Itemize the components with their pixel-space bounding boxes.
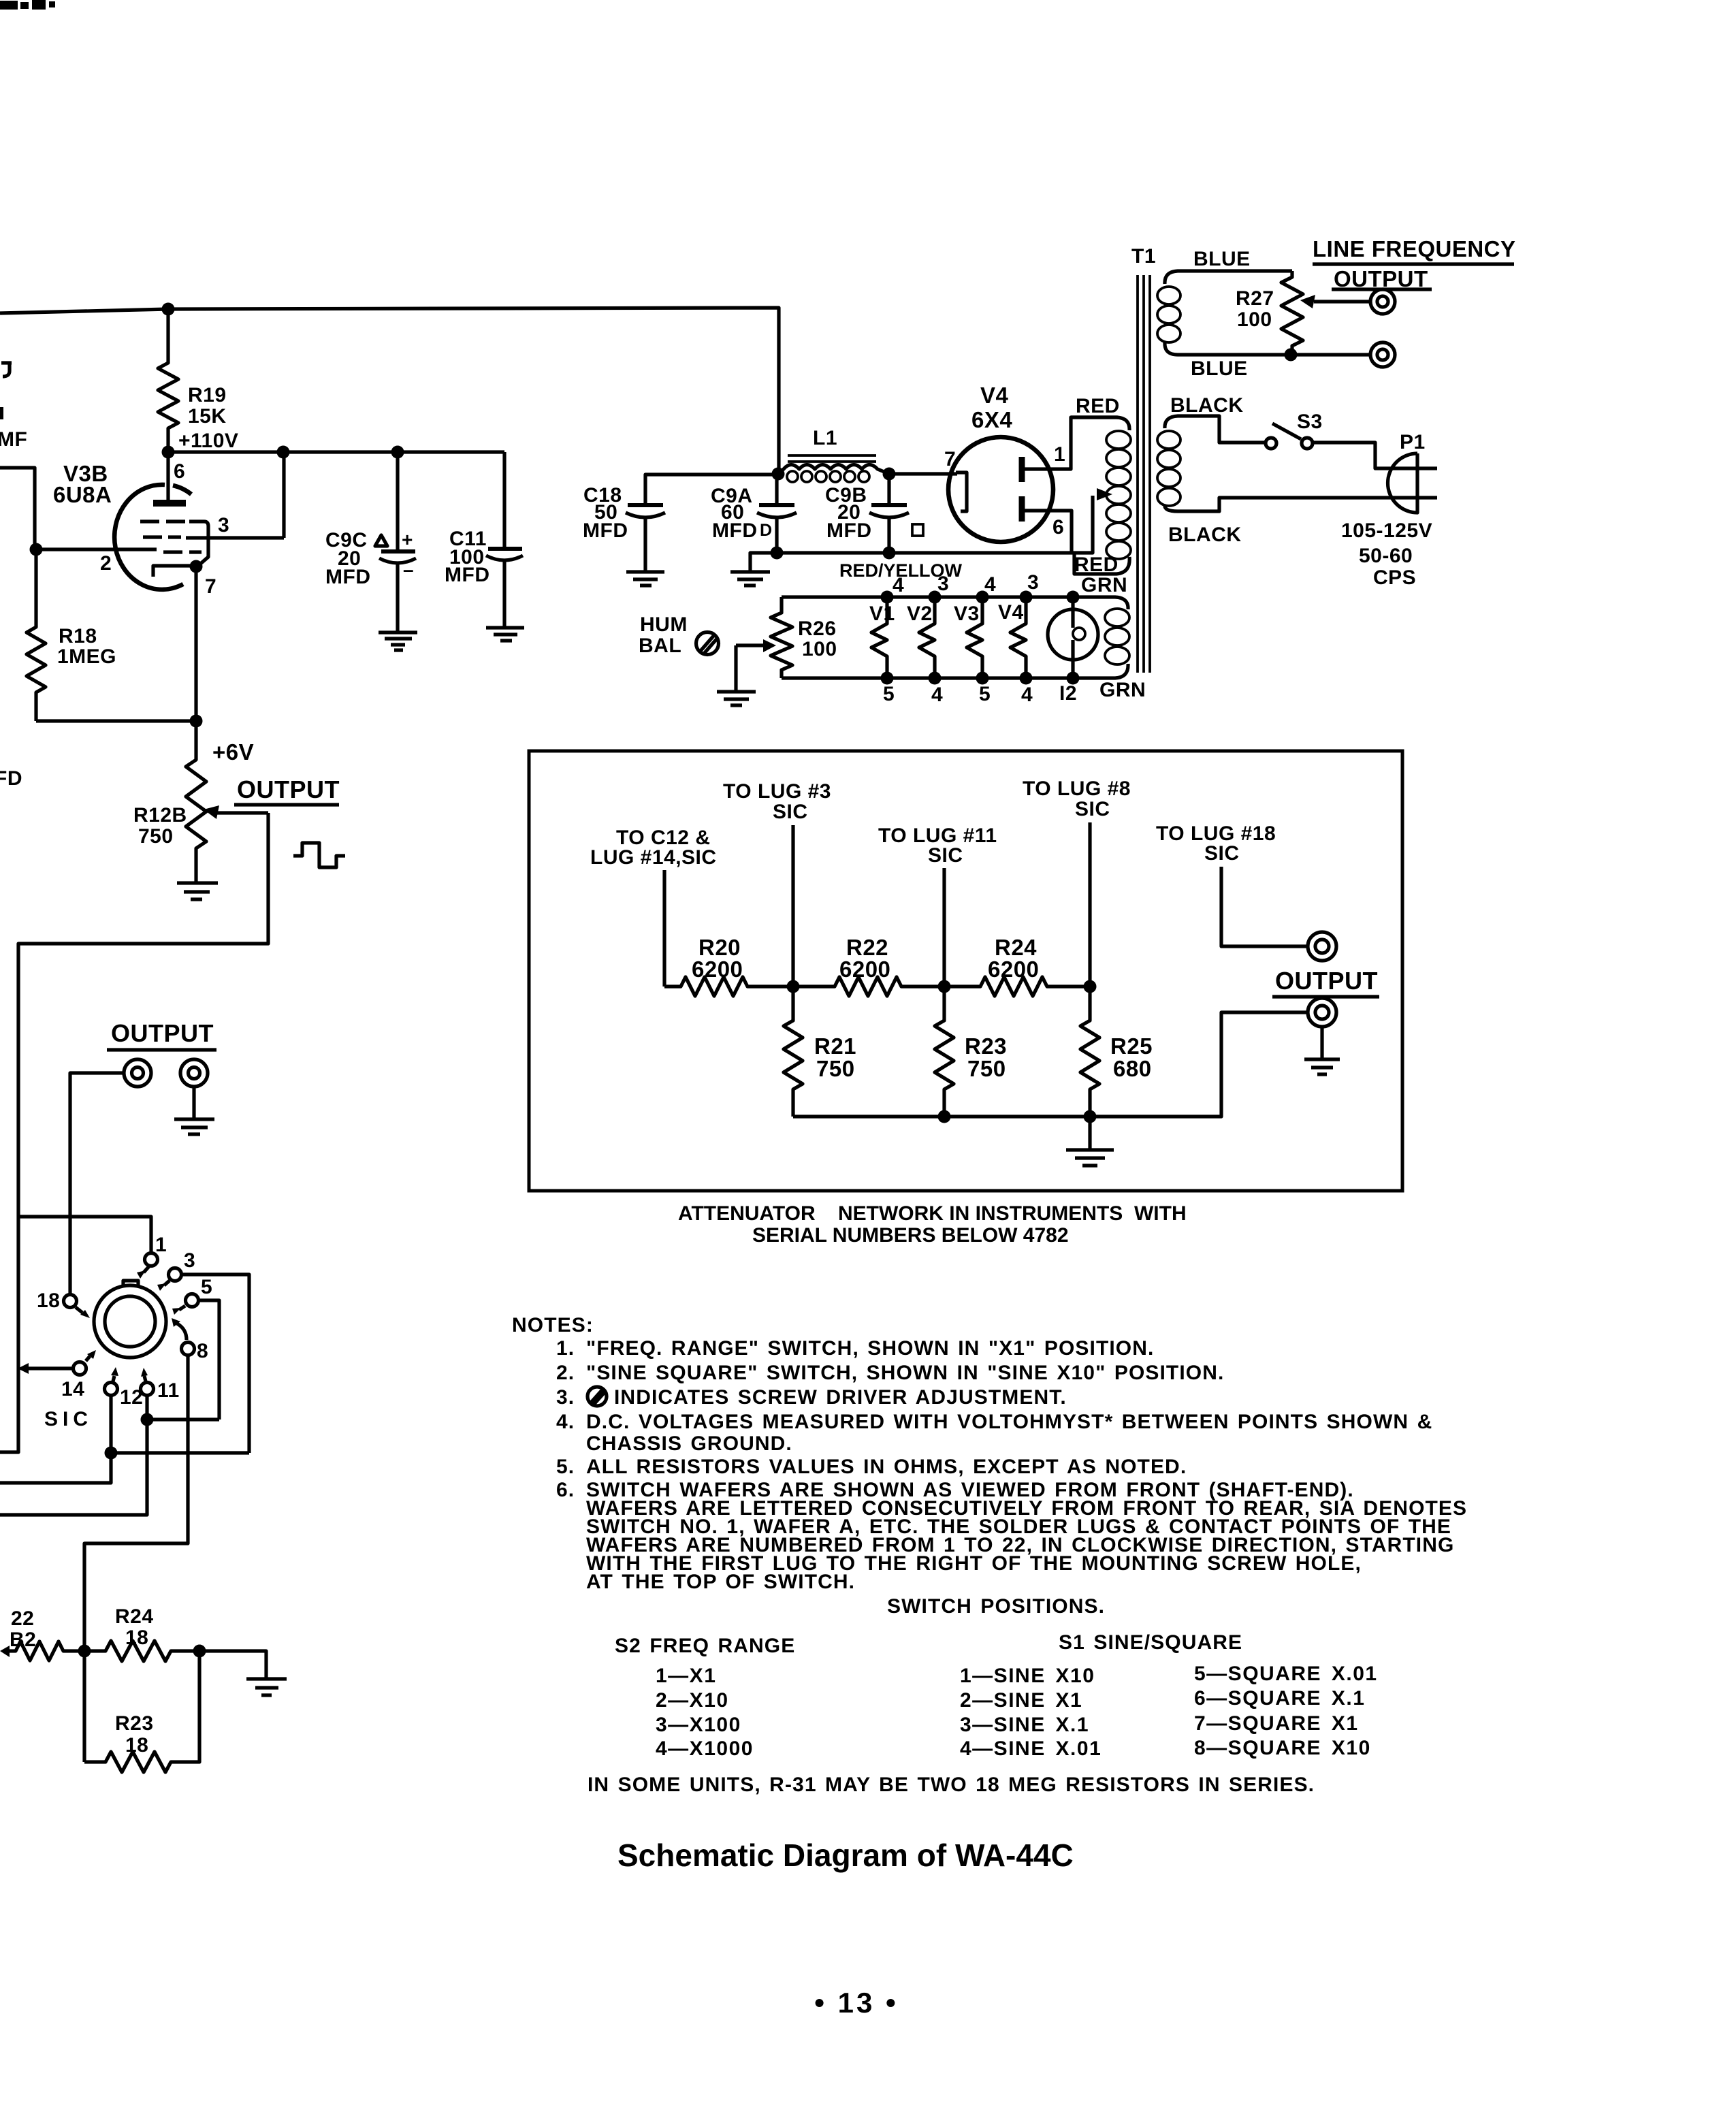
R27 wiper arrow to jack bbox=[1314, 300, 1370, 303]
svg-text:1—SINE X10: 1—SINE X10 bbox=[960, 1665, 1095, 1687]
note 3 screwdriver symbol bbox=[588, 1387, 607, 1406]
svg-text:750: 750 bbox=[967, 1056, 1006, 1081]
svg-text:R19: R19 bbox=[188, 384, 227, 406]
svg-text:6X4: 6X4 bbox=[971, 407, 1012, 432]
V3B cathode bbox=[153, 566, 195, 577]
heater resistor V1 bbox=[871, 597, 887, 678]
switch S3 bbox=[1266, 423, 1313, 449]
svg-text:MFD: MFD bbox=[583, 519, 628, 542]
capacitor C18 bbox=[626, 505, 665, 517]
lug 14 bbox=[74, 1362, 86, 1375]
node: lamp bottom bbox=[1067, 672, 1080, 685]
svg-text:5: 5 bbox=[201, 1276, 212, 1298]
svg-text:R23: R23 bbox=[965, 1033, 1007, 1059]
wire: pin 3 riser bbox=[282, 452, 285, 538]
svg-text:HUM: HUM bbox=[640, 613, 688, 636]
svg-text:OUTPUT: OUTPUT bbox=[237, 775, 340, 803]
svg-text:6200: 6200 bbox=[839, 957, 890, 982]
wire: wafer box to lug 1 bbox=[18, 1217, 151, 1253]
lug 12 bbox=[105, 1383, 118, 1396]
svg-text:NOTES:: NOTES: bbox=[512, 1314, 594, 1336]
svg-text:7—SQUARE X1: 7—SQUARE X1 bbox=[1194, 1712, 1359, 1735]
ground at RED/YELLOW rail left end bbox=[730, 572, 770, 586]
svg-text:MFD: MFD bbox=[826, 519, 871, 542]
svg-text:BLUE: BLUE bbox=[1191, 357, 1248, 380]
svg-text:TO LUG #8: TO LUG #8 bbox=[1023, 778, 1131, 800]
svg-text:R26: R26 bbox=[798, 618, 837, 640]
R12B wiper arrow bbox=[217, 811, 268, 814]
svg-text:11: 11 bbox=[157, 1379, 180, 1402]
svg-text:680: 680 bbox=[1113, 1056, 1152, 1081]
wire: RED/YELLOW center-tap rail bbox=[750, 496, 1093, 571]
svg-text:18: 18 bbox=[125, 1626, 148, 1649]
node: R25 bottom junction bbox=[1084, 1110, 1097, 1123]
lug 11 pointer bbox=[144, 1376, 146, 1381]
wire: R12B wiper to lower-left network bbox=[0, 813, 268, 1452]
wire: lug 8 down to R23/R24 bbox=[84, 1355, 188, 1762]
svg-text:SIC: SIC bbox=[44, 1408, 93, 1430]
resistor R23 lower bbox=[84, 1651, 199, 1772]
resistor R22 lower bbox=[10, 1641, 84, 1661]
jack: lower output hot bbox=[124, 1059, 151, 1087]
wire: lug 3 lead bbox=[791, 825, 794, 987]
svg-text:R18: R18 bbox=[59, 625, 97, 647]
wire: lug 14 to left bus bbox=[29, 1366, 74, 1370]
node: +110V junction bbox=[162, 446, 175, 459]
lug 1 bbox=[145, 1253, 158, 1266]
svg-text:12: 12 bbox=[120, 1386, 143, 1409]
wire: hot jack to lug 18 bbox=[70, 1073, 124, 1295]
wire: C18 top to L1 node bbox=[645, 475, 778, 505]
svg-text:SIC: SIC bbox=[1075, 798, 1110, 820]
svg-text:100: 100 bbox=[1237, 308, 1272, 331]
V4 plate bar pin 6 bbox=[1019, 496, 1025, 522]
wire: junction to ground bbox=[199, 1651, 266, 1678]
svg-text:4: 4 bbox=[1021, 684, 1033, 706]
node: C9B bottom junction bbox=[883, 547, 896, 560]
partial glyph bar at left edge bbox=[0, 407, 3, 419]
svg-text:I2: I2 bbox=[1059, 682, 1077, 705]
plug P1 bbox=[1388, 453, 1418, 513]
svg-text:D: D bbox=[760, 521, 773, 540]
svg-text:OUTPUT: OUTPUT bbox=[1275, 967, 1378, 995]
lug 12 pointer bbox=[113, 1376, 114, 1381]
capacitor C9B bbox=[869, 505, 909, 517]
svg-text:+6V: +6V bbox=[212, 739, 254, 765]
wire: C11 to ground bbox=[502, 561, 506, 626]
svg-text:2.: 2. bbox=[556, 1362, 575, 1384]
attenuator network box bbox=[529, 751, 1402, 1191]
svg-text:1—X1: 1—X1 bbox=[656, 1665, 716, 1687]
underline OUTPUT bbox=[1332, 287, 1432, 291]
svg-text:CHASSIS GROUND.: CHASSIS GROUND. bbox=[586, 1432, 792, 1455]
capacitor C9A riser bbox=[775, 474, 778, 505]
lug 18 pointer bbox=[76, 1307, 82, 1313]
jack: attenuator output hot bbox=[1308, 932, 1336, 961]
wire: C9C to ground bbox=[396, 564, 399, 631]
node: heater top 4b bbox=[976, 591, 989, 604]
rotary switch wafer S1C bbox=[94, 1281, 166, 1358]
transformer BLACK winding (primary) bbox=[1157, 416, 1437, 511]
V4 cathode bbox=[956, 472, 967, 511]
node: R24/R23 right junction bbox=[193, 1645, 206, 1658]
svg-text:LINE FREQUENCY: LINE FREQUENCY bbox=[1313, 236, 1516, 261]
wire: lug 11 lead bbox=[942, 868, 946, 987]
svg-text:4: 4 bbox=[931, 684, 943, 706]
wire: lug 12 down and left bbox=[0, 1395, 111, 1483]
svg-text:8—SQUARE X10: 8—SQUARE X10 bbox=[1194, 1737, 1371, 1759]
wire: pin 3 from grid to riser bbox=[186, 536, 284, 539]
wire: pin 1 to RED winding top bbox=[1025, 417, 1118, 469]
node: cathode pin 7 junction bbox=[190, 560, 203, 573]
wire: pin 6 to junction bbox=[1025, 511, 1072, 552]
ground under hum balance wiper bbox=[717, 692, 756, 705]
V4 plate bar pin 1 bbox=[1019, 457, 1025, 482]
svg-text:–: – bbox=[403, 559, 415, 580]
wire: junction to lug 5 branch bbox=[147, 1417, 219, 1421]
svg-text:22: 22 bbox=[11, 1607, 34, 1630]
svg-text:2: 2 bbox=[100, 552, 112, 575]
V3B plate bar bbox=[153, 500, 186, 507]
svg-text:5: 5 bbox=[979, 683, 991, 705]
tube V4 envelope bbox=[948, 437, 1053, 542]
wire: pin 2 grid wire from left bbox=[0, 468, 157, 549]
svg-text:TO LUG #3: TO LUG #3 bbox=[723, 780, 831, 803]
svg-text:Schematic Diagram of WA-44C: Schematic Diagram of WA-44C bbox=[617, 1838, 1074, 1873]
node: lamp top bbox=[1067, 591, 1080, 604]
polarity triangle for C9C bbox=[375, 535, 387, 546]
capacitor C11 bbox=[486, 549, 523, 560]
svg-text:S1 SINE/SQUARE: S1 SINE/SQUARE bbox=[1059, 1631, 1242, 1654]
ground lower output jack bbox=[174, 1119, 214, 1134]
svg-text:V1: V1 bbox=[869, 603, 895, 625]
svg-text:SIC: SIC bbox=[928, 844, 963, 867]
node: heater bottom 5b bbox=[976, 672, 989, 685]
capacitor C9B riser bbox=[887, 474, 890, 505]
V3B grid row A with hook to cathode bbox=[140, 522, 208, 566]
ground attenuator jack bbox=[1304, 1059, 1340, 1074]
svg-text:B2: B2 bbox=[10, 1629, 36, 1651]
underline OUTPUT bbox=[234, 803, 339, 806]
transformer T1 core bbox=[1138, 275, 1150, 673]
svg-text:750: 750 bbox=[138, 825, 174, 848]
svg-text:BLACK: BLACK bbox=[1170, 394, 1244, 417]
svg-text:6U8A: 6U8A bbox=[53, 482, 112, 507]
potentiometer R12B bbox=[186, 721, 206, 883]
node: R22/R23/R24 junction bbox=[938, 980, 951, 993]
svg-text:MFD: MFD bbox=[712, 519, 757, 542]
svg-text:1.: 1. bbox=[556, 1337, 575, 1360]
jack: line frequency output 2 bbox=[1370, 342, 1395, 367]
jack: attenuator output ground bbox=[1308, 998, 1336, 1027]
svg-text:SIC: SIC bbox=[1204, 842, 1240, 865]
svg-text:1: 1 bbox=[155, 1234, 167, 1256]
wire: C9B to RED/YELLOW rail bbox=[887, 517, 890, 553]
svg-text:R12B: R12B bbox=[133, 804, 187, 827]
svg-text:750: 750 bbox=[816, 1056, 855, 1081]
svg-text:BLACK: BLACK bbox=[1168, 524, 1242, 546]
transformer RED winding (HV secondary) bbox=[1071, 417, 1131, 574]
svg-text:SERIAL NUMBERS BELOW 4782: SERIAL NUMBERS BELOW 4782 bbox=[752, 1224, 1069, 1247]
node: R22/R24/R23 junction bbox=[78, 1645, 91, 1658]
L1 core lines bbox=[788, 455, 876, 462]
svg-text:1MEG: 1MEG bbox=[57, 645, 116, 668]
svg-text:100: 100 bbox=[802, 638, 837, 660]
ground lower network bbox=[246, 1679, 287, 1695]
V3B grid row C dashes bbox=[163, 550, 202, 554]
svg-text:P1: P1 bbox=[1400, 431, 1426, 453]
svg-text:"FREQ. RANGE" SWITCH, SHOWN IN: "FREQ. RANGE" SWITCH, SHOWN IN "X1" POSI… bbox=[586, 1337, 1154, 1360]
svg-text:4—SINE X.01: 4—SINE X.01 bbox=[960, 1737, 1102, 1760]
svg-text:R27: R27 bbox=[1236, 287, 1274, 310]
capacitor C11 riser bbox=[502, 452, 506, 549]
wire: +110V rail to C9C and C11 bbox=[168, 450, 504, 453]
wire: lug 8 lead bbox=[1088, 822, 1091, 987]
svg-text:V4: V4 bbox=[998, 601, 1024, 624]
capacitor C9C bbox=[379, 551, 416, 563]
node: C9C riser junction bbox=[391, 446, 404, 459]
resistor R23 bbox=[935, 987, 954, 1117]
svg-text:4—X1000: 4—X1000 bbox=[656, 1737, 754, 1760]
wire: lug 11 down and left bbox=[0, 1395, 147, 1515]
wire: R18 bottom to cathode node (+6V) bbox=[36, 719, 196, 722]
lug 5 pointer bbox=[179, 1306, 185, 1310]
lug 18 bbox=[64, 1295, 77, 1308]
svg-text:50-60: 50-60 bbox=[1359, 545, 1413, 567]
lug 5 bbox=[186, 1294, 199, 1307]
ground attenuator rail bbox=[1066, 1150, 1114, 1166]
svg-text:D.C. VOLTAGES MEASURED WITH VO: D.C. VOLTAGES MEASURED WITH VOLTOHMYST* … bbox=[586, 1411, 1432, 1433]
wire: to jack 2 bbox=[1291, 353, 1370, 356]
svg-text:OUTPUT: OUTPUT bbox=[111, 1019, 214, 1047]
svg-text:IN SOME UNITS, R-31 MAY BE TWO: IN SOME UNITS, R-31 MAY BE TWO 18 MEG RE… bbox=[588, 1774, 1315, 1796]
svg-text:R25: R25 bbox=[1110, 1033, 1153, 1059]
node: C9A bottom junction bbox=[771, 547, 784, 560]
svg-text:SWITCH POSITIONS.: SWITCH POSITIONS. bbox=[887, 1595, 1105, 1618]
svg-text:CPS: CPS bbox=[1373, 566, 1416, 589]
svg-text:15K: 15K bbox=[188, 405, 227, 428]
svg-text:18: 18 bbox=[125, 1734, 148, 1757]
square wave symbol bbox=[293, 843, 345, 867]
svg-text:BAL: BAL bbox=[639, 635, 681, 657]
svg-text:3: 3 bbox=[937, 573, 949, 595]
svg-text:• 13 •: • 13 • bbox=[814, 1987, 898, 2019]
center tap arrowhead into RED winding bbox=[1097, 488, 1112, 500]
tube V3B envelope bbox=[114, 485, 191, 590]
svg-text:V2: V2 bbox=[907, 603, 933, 625]
heater resistor V3 bbox=[967, 597, 982, 678]
wire: lug 5 down bbox=[198, 1300, 219, 1420]
svg-text:18: 18 bbox=[37, 1289, 60, 1312]
svg-text:105-125V: 105-125V bbox=[1341, 519, 1432, 542]
wire: pin 7 down to +6V node bbox=[194, 566, 197, 721]
wire: S3 to plug P1 bbox=[1313, 443, 1437, 468]
svg-text:7: 7 bbox=[205, 575, 216, 598]
node: grid/R18 junction bbox=[30, 543, 43, 556]
svg-text:R23: R23 bbox=[115, 1712, 154, 1735]
transformer BLUE winding (line freq) bbox=[1157, 271, 1292, 355]
svg-text:MFD: MFD bbox=[445, 564, 489, 586]
polarity square mark for C9B bbox=[912, 524, 923, 536]
wire: jack to ground bbox=[1320, 1027, 1323, 1058]
transformer GRN winding (heater) bbox=[1073, 597, 1129, 678]
V3B plate lead pin 6 bbox=[166, 452, 170, 500]
svg-text:GRN: GRN bbox=[1081, 574, 1127, 596]
node: pin3 riser junction bbox=[277, 446, 290, 459]
node: R20/R21/R22 junction bbox=[787, 980, 800, 993]
svg-text:ALL RESISTORS VALUES IN OHMS,: ALL RESISTORS VALUES IN OHMS, EXCEPT AS … bbox=[586, 1456, 1187, 1478]
junction arrow R22 left bbox=[0, 1646, 10, 1657]
svg-text:RED: RED bbox=[1074, 554, 1119, 576]
wire: rail ground stub bbox=[1088, 1117, 1091, 1149]
wire: C9A to RED/YELLOW rail bbox=[775, 517, 778, 553]
resistor R24 bbox=[944, 977, 1090, 996]
wire: C18 to ground bbox=[643, 517, 647, 571]
svg-text:2—X10: 2—X10 bbox=[656, 1689, 729, 1712]
svg-text:ATTENUATOR NETWORK IN INSTR: ATTENUATOR NETWORK IN INSTRUMENTS WITH bbox=[678, 1202, 1187, 1225]
ground under C18 bbox=[626, 572, 664, 586]
wire: jack to ground bbox=[192, 1087, 195, 1118]
wire: lead to C12 bbox=[662, 870, 666, 987]
heater resistor V4 bbox=[1010, 597, 1026, 678]
node: R27 bottom junction bbox=[1285, 349, 1298, 362]
heater top rail bbox=[782, 595, 1073, 598]
resistor R22 bbox=[793, 977, 944, 996]
svg-text:3: 3 bbox=[184, 1249, 195, 1272]
lug 8 bbox=[182, 1343, 195, 1356]
wire: lug 18 to jack bbox=[1221, 867, 1308, 946]
resistor R18 bbox=[27, 549, 46, 721]
underline bbox=[107, 1048, 216, 1051]
node: +6V junction bbox=[190, 715, 203, 728]
capacitor C9C riser bbox=[396, 452, 399, 551]
ground under R12B bbox=[177, 883, 218, 899]
svg-text:"SINE SQUARE" SWITCH, SHOWN IN: "SINE SQUARE" SWITCH, SHOWN IN "SINE X10… bbox=[586, 1362, 1224, 1384]
node: heater bottom 4 bbox=[929, 672, 942, 685]
svg-text:AT THE TOP OF SWITCH.: AT THE TOP OF SWITCH. bbox=[586, 1571, 855, 1593]
svg-text:4: 4 bbox=[893, 574, 904, 596]
svg-text:6.: 6. bbox=[556, 1479, 575, 1501]
resistor R20 bbox=[664, 977, 793, 996]
svg-text:6200: 6200 bbox=[988, 957, 1039, 982]
jack: line frequency output 1 bbox=[1370, 289, 1395, 314]
svg-text:3: 3 bbox=[1027, 571, 1039, 594]
svg-text:3—X100: 3—X100 bbox=[656, 1714, 741, 1736]
R26 wiper arrow bbox=[736, 643, 765, 647]
svg-text:L1: L1 bbox=[813, 427, 837, 449]
node: lug12/lug3 junction bbox=[105, 1447, 118, 1460]
svg-text:14: 14 bbox=[61, 1378, 84, 1400]
scan smudge top-left corner bbox=[0, 0, 55, 10]
svg-text:5: 5 bbox=[883, 683, 895, 705]
underline LINE FREQUENCY bbox=[1313, 262, 1514, 266]
lug 1 pointer bbox=[144, 1266, 149, 1272]
wire: attenuator bottom rail bbox=[793, 1012, 1308, 1117]
node: L1 left junction bbox=[772, 468, 785, 481]
node: heater top 3 bbox=[929, 591, 942, 604]
svg-text:SIC: SIC bbox=[773, 801, 808, 823]
svg-text:+: + bbox=[402, 529, 413, 550]
svg-text:2—SINE X1: 2—SINE X1 bbox=[960, 1689, 1082, 1712]
wire: L1 to V4 pin 7 bbox=[889, 472, 957, 475]
inductor L1 bbox=[778, 465, 889, 483]
ground under C9C bbox=[379, 632, 417, 650]
jack: lower output ground bbox=[180, 1059, 208, 1087]
svg-text:8: 8 bbox=[197, 1340, 208, 1362]
wire: B+ top rail from left edge to L1 drop bbox=[0, 308, 779, 474]
lug 11 bbox=[141, 1383, 154, 1396]
svg-text:4.: 4. bbox=[556, 1411, 575, 1433]
svg-text:S2 FREQ RANGE: S2 FREQ RANGE bbox=[615, 1635, 795, 1657]
svg-text:V4: V4 bbox=[980, 383, 1009, 408]
node: R23 bottom junction bbox=[938, 1110, 951, 1123]
svg-text:4: 4 bbox=[984, 573, 996, 596]
svg-text:R24: R24 bbox=[115, 1605, 154, 1628]
svg-text:INDICATES SCREW DRIVER ADJUSTM: INDICATES SCREW DRIVER ADJUSTMENT. bbox=[614, 1386, 1067, 1409]
screwdriver adjustment symbol bbox=[696, 632, 719, 655]
lug 3 bbox=[169, 1268, 182, 1281]
node: L1 right junction bbox=[883, 468, 896, 481]
wire: wiper to ground bbox=[734, 645, 737, 690]
potentiometer R26 bbox=[771, 597, 792, 678]
resistor R25 bbox=[1080, 987, 1099, 1117]
resistor R19 bbox=[158, 309, 178, 452]
svg-text:1: 1 bbox=[1054, 443, 1065, 466]
svg-text:LUG #14,SIC: LUG #14,SIC bbox=[590, 846, 717, 869]
lug 14 pointer bbox=[86, 1356, 90, 1361]
node: heater bottom 5 bbox=[881, 672, 894, 685]
svg-text:MF: MF bbox=[0, 428, 27, 451]
wire: lug 3 down to net bbox=[181, 1275, 249, 1453]
junction arrow on left bus bbox=[18, 1363, 29, 1374]
resistor R24 lower bbox=[84, 1641, 199, 1661]
node: heater bottom 4b bbox=[1020, 672, 1033, 685]
capacitor C9A bbox=[757, 505, 797, 517]
svg-text:6: 6 bbox=[1052, 516, 1064, 539]
resistor R21 bbox=[784, 987, 803, 1117]
svg-text:5—SQUARE X.01: 5—SQUARE X.01 bbox=[1194, 1663, 1378, 1685]
svg-text:MFD: MFD bbox=[325, 566, 370, 588]
lug 8 pointer bbox=[177, 1324, 187, 1340]
partial glyph (cut waveform symbol) at left edge bbox=[1, 363, 12, 376]
heater bottom rail bbox=[782, 676, 1073, 679]
svg-text:GRN: GRN bbox=[1099, 679, 1146, 701]
svg-text:R21: R21 bbox=[814, 1033, 856, 1059]
svg-text:3.: 3. bbox=[556, 1386, 575, 1409]
svg-text:S3: S3 bbox=[1297, 411, 1323, 433]
svg-text:+110V: +110V bbox=[178, 430, 238, 452]
wire: junction to lug 3 branch bbox=[111, 1451, 249, 1454]
svg-text:T1: T1 bbox=[1131, 245, 1156, 268]
node: heater top 4 bbox=[881, 591, 894, 604]
underline bbox=[1272, 995, 1379, 998]
svg-text:6200: 6200 bbox=[692, 957, 743, 982]
svg-text:6: 6 bbox=[174, 460, 185, 483]
potentiometer R27 bbox=[1281, 271, 1303, 355]
node: lug11/lug5 junction bbox=[141, 1413, 154, 1426]
node: B+ rail junction at R19 top bbox=[162, 303, 175, 316]
ground under C11 bbox=[486, 628, 524, 641]
lug 3 pointer bbox=[164, 1281, 170, 1285]
svg-text:V3: V3 bbox=[954, 603, 980, 625]
V3B grid row B dashes bbox=[143, 535, 181, 539]
svg-text:3: 3 bbox=[218, 514, 229, 536]
heater resistor V2 bbox=[919, 597, 935, 678]
node: heater top 3b bbox=[1020, 591, 1033, 604]
lamp I2 bbox=[1048, 597, 1098, 678]
svg-text:FD: FD bbox=[0, 767, 22, 790]
svg-text:RED: RED bbox=[1076, 395, 1120, 417]
